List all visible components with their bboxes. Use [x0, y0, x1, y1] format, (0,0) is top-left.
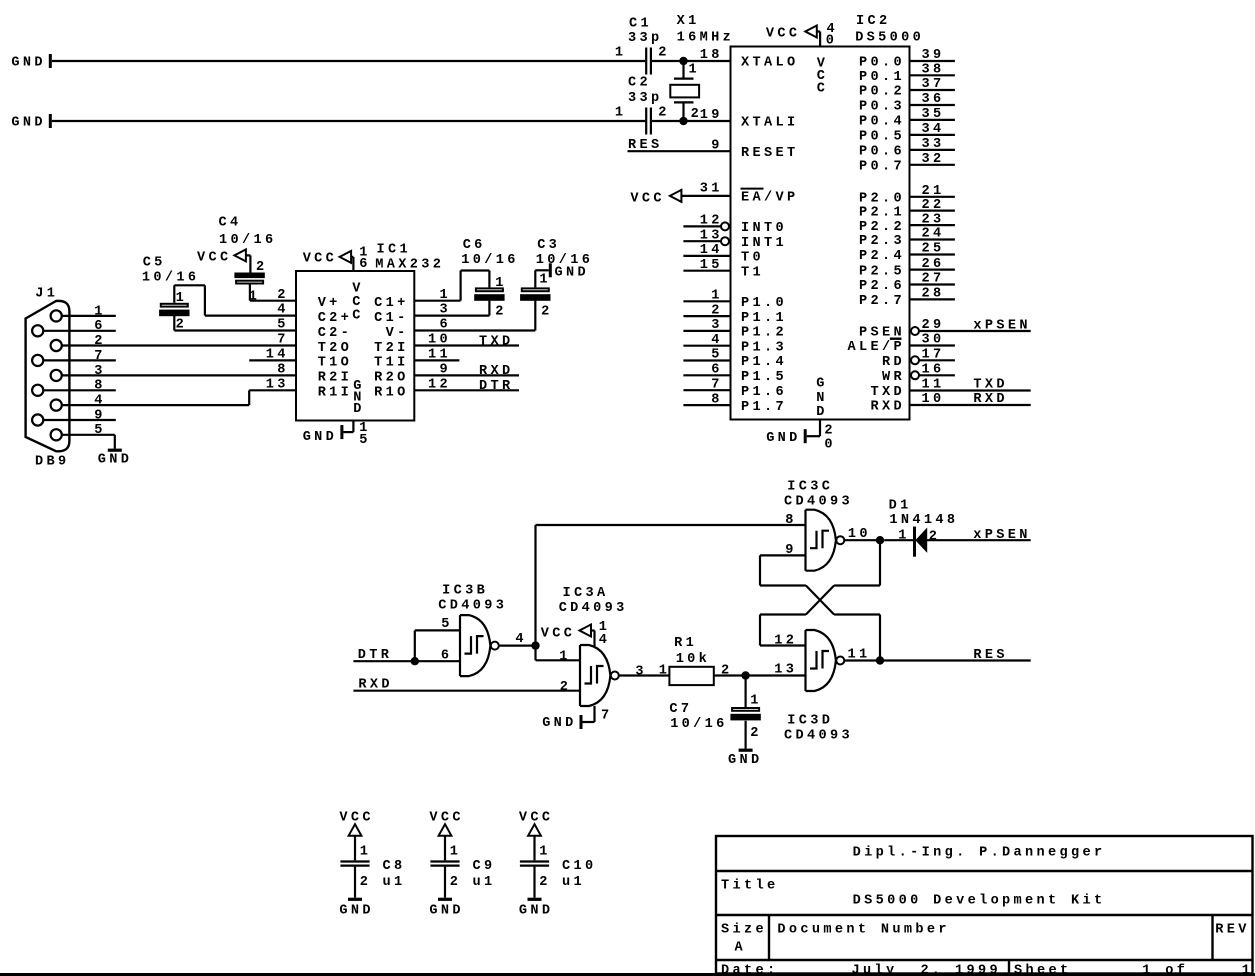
svg-text:A: A: [735, 941, 747, 956]
crystal X1 16MHz: [670, 14, 734, 122]
wire: [52, 60, 645, 62]
ground GND at IC2 pin 20: [766, 421, 836, 453]
ground GND at C8: [339, 898, 374, 919]
IC2 pin 13: [683, 228, 729, 245]
svg-text:C2+: C2+: [318, 311, 353, 326]
wire DTR: [353, 660, 459, 662]
J1 pin 6 wire: [43, 319, 116, 334]
IC2 pin 16 WR: [911, 363, 955, 380]
svg-text:Date:: Date:: [721, 964, 779, 976]
IC1 MAX232 body: [296, 242, 444, 420]
svg-text:VCC: VCC: [197, 251, 232, 266]
power VCC at EA/VP pin 31: [630, 181, 722, 206]
IC2 pin 29 PSEN: [911, 318, 1031, 335]
wire RES: [880, 659, 1031, 661]
svg-text:P2.2: P2.2: [859, 220, 905, 235]
svg-text:T2I: T2I: [374, 341, 409, 356]
IC2 pin 28: [911, 287, 955, 302]
IC2 pin 30: [911, 333, 955, 348]
svg-text:7: 7: [601, 708, 613, 723]
svg-text:19: 19: [700, 108, 723, 123]
wire V- to C3: [415, 329, 536, 331]
svg-text:T1O: T1O: [318, 356, 353, 371]
svg-text:C5: C5: [143, 255, 166, 270]
svg-text:GND: GND: [542, 716, 577, 731]
IC2 pin 24: [911, 227, 955, 242]
junction: [411, 657, 419, 665]
wire: [250, 300, 296, 302]
svg-text:0: 0: [824, 437, 836, 452]
svg-text:C3: C3: [537, 238, 560, 253]
gate IC3D CD4093: [774, 630, 870, 744]
svg-text:IC1: IC1: [377, 242, 412, 257]
svg-text:P1.1: P1.1: [741, 311, 787, 326]
IC2 pin 5: [683, 348, 729, 363]
IC2 pin 1: [683, 289, 729, 304]
svg-text:RES: RES: [973, 648, 1008, 663]
svg-text:Document Number: Document Number: [777, 923, 949, 938]
ground GND at C1: [11, 54, 51, 71]
svg-text:Title: Title: [721, 879, 779, 894]
wire: [681, 195, 729, 197]
svg-text:P2.6: P2.6: [859, 279, 905, 294]
svg-text:P2.3: P2.3: [859, 234, 905, 249]
cross-coupling wires: [760, 586, 880, 661]
svg-text:VCC: VCC: [541, 627, 576, 642]
svg-text:1: 1: [615, 46, 627, 61]
junction node XTALO: [679, 57, 687, 65]
svg-text:VCC: VCC: [303, 252, 338, 267]
svg-text:DS5000 Development Kit: DS5000 Development Kit: [853, 894, 1106, 909]
gate IC3C CD4093: [784, 479, 871, 570]
svg-text:R1I: R1I: [318, 386, 353, 401]
svg-text:5: 5: [94, 423, 106, 438]
IC2 pin 27: [911, 272, 955, 287]
ground GND at C2: [11, 114, 51, 131]
svg-text:WR: WR: [882, 370, 905, 385]
svg-text:1: 1: [94, 304, 106, 319]
svg-text:2: 2: [360, 875, 372, 890]
wire: [652, 60, 730, 62]
J1 pin 3 wire: [62, 364, 296, 379]
resistor R1 10k: [659, 636, 733, 685]
svg-text:P2.4: P2.4: [859, 249, 905, 264]
wire: [879, 540, 881, 585]
IC2 pin 3: [683, 318, 729, 333]
svg-text:TXD: TXD: [479, 334, 514, 349]
svg-text:2: 2: [541, 304, 553, 319]
power VCC at C8: [339, 810, 374, 835]
svg-text:IC3D: IC3D: [787, 714, 833, 729]
wire pin 9: [760, 554, 806, 556]
svg-text:IC2: IC2: [856, 14, 891, 29]
junction: [531, 641, 539, 649]
svg-text:4: 4: [277, 303, 289, 318]
svg-text:C2: C2: [628, 76, 651, 91]
svg-text:3: 3: [635, 664, 647, 679]
svg-text:DB9: DB9: [35, 455, 70, 470]
svg-text:VCC: VCC: [766, 27, 801, 42]
svg-text:GND: GND: [728, 753, 763, 768]
svg-text:P1.2: P1.2: [741, 326, 787, 341]
svg-text:INT1: INT1: [741, 236, 787, 251]
svg-text:GND: GND: [519, 904, 554, 919]
capacitor C7 10/16: [669, 676, 761, 749]
svg-text:3: 3: [94, 364, 106, 379]
svg-text:GND: GND: [766, 431, 801, 446]
svg-text:2: 2: [495, 304, 507, 319]
svg-text:P2.5: P2.5: [859, 264, 905, 279]
svg-text:1: 1: [659, 664, 671, 679]
power VCC at IC3A pin 14: [541, 620, 611, 648]
wire xPSEN: [927, 539, 1031, 541]
IC2 pin 26: [911, 257, 955, 272]
capacitor C10 u1: [520, 836, 597, 898]
svg-text:9: 9: [94, 408, 106, 423]
svg-text:C1: C1: [629, 16, 652, 31]
IC2 pin 15: [683, 258, 729, 273]
svg-text:P2.7: P2.7: [859, 294, 905, 309]
svg-text:C1+: C1+: [374, 296, 409, 311]
svg-text:1: 1: [689, 63, 701, 78]
wire top rail to IC3C pin 8: [536, 524, 806, 526]
svg-text:C10: C10: [562, 859, 597, 874]
svg-text:P0.0: P0.0: [859, 56, 905, 71]
IC2 pin 21: [911, 184, 955, 199]
svg-text:P1.3: P1.3: [741, 340, 787, 355]
svg-text:CD4093: CD4093: [784, 494, 853, 509]
svg-text:RD: RD: [882, 355, 905, 370]
svg-text:C6: C6: [463, 238, 486, 253]
svg-text:10/16: 10/16: [670, 717, 728, 732]
wire: [714, 674, 806, 676]
connector J1 DB9: [26, 287, 70, 470]
svg-text:N: N: [816, 391, 828, 406]
capacitor C5 10/16: [142, 255, 200, 332]
wire T1I stub: [415, 359, 460, 361]
svg-text:IC3A: IC3A: [563, 586, 609, 601]
title block frame: [716, 836, 1253, 974]
ground GND at IC3A pin 7: [542, 706, 612, 731]
svg-text:33p: 33p: [628, 31, 663, 46]
IC2 pin 7: [683, 377, 729, 392]
svg-text:7: 7: [94, 349, 106, 364]
svg-text:8: 8: [94, 379, 106, 394]
svg-text:2: 2: [560, 680, 572, 695]
svg-text:4: 4: [599, 633, 611, 648]
svg-text:P0.3: P0.3: [859, 100, 905, 115]
svg-text:13: 13: [774, 663, 797, 678]
svg-text:XTALO: XTALO: [741, 56, 799, 71]
svg-text:5: 5: [359, 433, 371, 448]
svg-text:9: 9: [711, 138, 723, 153]
svg-text:P2.0: P2.0: [859, 192, 905, 207]
ground GND at C7: [728, 749, 763, 768]
svg-text:P1.6: P1.6: [741, 385, 787, 400]
svg-text:INT0: INT0: [741, 221, 787, 236]
ground at J1 pin 5: [98, 449, 133, 468]
svg-text:RESET: RESET: [741, 146, 799, 161]
svg-text:1: 1: [1242, 964, 1254, 976]
svg-text:R2I: R2I: [318, 371, 353, 386]
wire DTR from IC1: [415, 389, 520, 391]
svg-text:T0: T0: [741, 251, 764, 266]
wire: [652, 120, 730, 122]
IC2 right pin names: [848, 56, 906, 415]
power VCC at C9: [429, 810, 464, 835]
IC2 pin 12: [683, 214, 729, 231]
svg-text:R1: R1: [674, 636, 697, 651]
svg-text:xPSEN: xPSEN: [973, 528, 1031, 543]
svg-text:u1: u1: [383, 875, 406, 890]
svg-text:5: 5: [277, 318, 289, 333]
J1 pin 1 wire: [62, 304, 116, 319]
IC2 pin 38: [911, 63, 955, 78]
svg-text:GND: GND: [555, 266, 590, 281]
svg-text:P0.5: P0.5: [859, 130, 905, 145]
svg-text:P0.1: P0.1: [859, 70, 905, 85]
wire: [249, 389, 295, 391]
svg-text:C9: C9: [473, 859, 496, 874]
IC2 pin 39: [911, 48, 955, 63]
junction: [876, 656, 884, 664]
svg-text:VCC: VCC: [630, 191, 665, 206]
svg-text:C: C: [817, 82, 829, 97]
ground GND at C3: [549, 263, 589, 280]
IC2 pin 36: [911, 92, 955, 107]
svg-text:GND: GND: [429, 904, 464, 919]
capacitor C6 10/16: [461, 238, 519, 319]
svg-text:ALE/P: ALE/P: [848, 340, 906, 355]
IC2 pin 14: [683, 243, 729, 258]
IC2 pin 34: [911, 122, 955, 137]
svg-text:18: 18: [700, 48, 723, 63]
IC2 left pin names: [741, 56, 829, 420]
svg-text:C: C: [352, 308, 364, 323]
svg-text:Sheet: Sheet: [1014, 964, 1072, 976]
svg-text:10/16: 10/16: [142, 271, 200, 286]
svg-text:1: 1: [249, 290, 261, 305]
svg-text:RXD: RXD: [871, 400, 906, 415]
IC2 pin 6: [683, 363, 729, 378]
svg-text:8: 8: [785, 513, 797, 528]
J1 pin 5 wire: [62, 423, 115, 448]
svg-text:C4: C4: [219, 216, 242, 231]
wire vertical to top rail and IC3A pin1: [534, 525, 536, 660]
capacitor C8 u1: [340, 836, 405, 898]
svg-text:1: 1: [360, 845, 372, 860]
wire RXD from IC1: [415, 374, 520, 376]
ground GND at C9: [429, 898, 464, 919]
svg-text:GND: GND: [339, 904, 374, 919]
svg-text:P1.0: P1.0: [741, 296, 787, 311]
svg-text:5: 5: [441, 617, 453, 632]
svg-text:u1: u1: [473, 875, 496, 890]
svg-text:6: 6: [441, 648, 453, 663]
svg-text:REV: REV: [1215, 923, 1250, 938]
IC2 pin 10 RXD: [911, 392, 1031, 407]
IC2 pin 11 TXD: [911, 378, 1031, 393]
svg-text:10/16: 10/16: [461, 253, 519, 268]
svg-text:10/16: 10/16: [219, 233, 277, 248]
svg-text:EA/VP: EA/VP: [741, 191, 799, 206]
svg-text:D1: D1: [889, 499, 912, 514]
svg-text:G: G: [816, 377, 828, 392]
svg-text:T2O: T2O: [318, 341, 353, 356]
svg-text:7: 7: [277, 333, 289, 348]
sheet bottom border: [0, 973, 1255, 976]
wire pin 12: [760, 644, 806, 646]
wire: [844, 539, 876, 541]
wire TXD from IC1: [415, 344, 520, 346]
IC2 pin 4: [683, 333, 729, 348]
svg-text:1: 1: [559, 649, 571, 664]
svg-text:TXD: TXD: [871, 385, 906, 400]
svg-text:33p: 33p: [628, 91, 663, 106]
svg-text:IC3B: IC3B: [442, 584, 488, 599]
svg-text:GND: GND: [98, 452, 133, 467]
svg-text:Size: Size: [721, 923, 767, 938]
svg-text:VCC: VCC: [519, 810, 554, 825]
gate IC3A CD4093: [559, 586, 647, 706]
svg-text:P0.4: P0.4: [859, 115, 905, 130]
svg-text:XTALI: XTALI: [741, 116, 799, 131]
J1 pin 8 wire: [43, 379, 116, 394]
svg-text:Dipl.-Ing. P.Dannegger: Dipl.-Ing. P.Dannegger: [853, 846, 1106, 861]
svg-text:P1.5: P1.5: [741, 370, 787, 385]
svg-text:1: 1: [615, 106, 627, 121]
svg-text:CD4093: CD4093: [559, 601, 628, 616]
wire: [628, 150, 730, 152]
svg-text:1: 1: [539, 845, 551, 860]
svg-text:J1: J1: [35, 287, 58, 302]
IC2 pin 23: [911, 212, 955, 227]
wire RXD: [353, 690, 579, 692]
svg-text:RXD: RXD: [973, 392, 1008, 407]
capacitor C2 33p: [615, 76, 670, 135]
svg-text:2: 2: [658, 46, 670, 61]
svg-text:RXD: RXD: [479, 364, 514, 379]
IC2 pin 8: [683, 392, 729, 407]
capacitor C4 10/16: [197, 216, 277, 305]
junction: [741, 671, 749, 679]
IC2 pin 32: [911, 152, 955, 167]
svg-text:xPSEN: xPSEN: [973, 318, 1031, 333]
svg-text:T1I: T1I: [374, 356, 409, 371]
svg-text:P0.6: P0.6: [859, 145, 905, 160]
svg-text:4: 4: [94, 394, 106, 409]
svg-text:1: 1: [750, 693, 762, 708]
wire: [619, 674, 670, 676]
svg-text:6: 6: [359, 257, 371, 272]
svg-text:2: 2: [750, 726, 762, 741]
diode D1 1N4148: [884, 499, 958, 557]
wire: [52, 120, 645, 122]
junction node XTALI: [679, 117, 687, 125]
svg-text:C7: C7: [669, 702, 692, 717]
IC2 pin 22: [911, 198, 955, 213]
svg-text:1: 1: [495, 276, 507, 291]
svg-text:DTR: DTR: [479, 379, 514, 394]
svg-text:X1: X1: [677, 14, 700, 29]
svg-text:D: D: [353, 402, 365, 417]
capacitor C1 33p: [615, 16, 670, 74]
IC2 pin 33: [911, 137, 955, 152]
svg-text:2: 2: [539, 875, 551, 890]
IC2 pin 35: [911, 107, 955, 122]
svg-text:1: 1: [898, 529, 910, 544]
svg-text:1 of: 1 of: [1142, 964, 1188, 976]
svg-text:VCC: VCC: [339, 810, 374, 825]
wire: [414, 630, 416, 661]
svg-text:P1.7: P1.7: [741, 400, 787, 415]
svg-text:6: 6: [94, 319, 106, 334]
svg-text:T1: T1: [741, 265, 764, 280]
svg-text:P0.7: P0.7: [859, 160, 905, 175]
IC2 DS5000 microcontroller body: [731, 14, 925, 420]
svg-text:31: 31: [700, 181, 723, 196]
svg-text:TXD: TXD: [973, 378, 1008, 393]
wire pin1 C1+: [415, 300, 461, 302]
svg-text:C2-: C2-: [318, 326, 353, 341]
junction: [876, 536, 884, 544]
svg-text:CD4093: CD4093: [438, 598, 507, 613]
svg-text:u1: u1: [562, 875, 585, 890]
J1 pin 2 wire: [62, 334, 296, 349]
svg-text:1: 1: [176, 291, 188, 306]
svg-text:GND: GND: [303, 430, 338, 445]
svg-text:2: 2: [929, 529, 941, 544]
svg-text:C8: C8: [383, 859, 406, 874]
IC1 pin names: [318, 282, 409, 418]
svg-text:12: 12: [774, 633, 797, 648]
wire: [844, 659, 876, 661]
svg-text:P2.1: P2.1: [859, 205, 905, 220]
wire: [174, 329, 295, 331]
svg-text:2: 2: [94, 334, 106, 349]
power VCC at IC1 pin 16: [303, 246, 371, 273]
svg-text:July 2, 1999: July 2, 1999: [852, 964, 1001, 976]
power VCC at IC2 pin 40: [766, 22, 838, 49]
svg-text:2: 2: [658, 106, 670, 121]
J1 pin 4 wire: [62, 390, 249, 408]
title block texts: [721, 846, 1253, 976]
svg-text:C1-: C1-: [374, 311, 409, 326]
svg-text:GND: GND: [11, 116, 46, 131]
svg-text:R2O: R2O: [374, 371, 409, 386]
svg-text:8: 8: [277, 363, 289, 378]
capacitor C3 10/16: [520, 238, 593, 319]
svg-text:D: D: [816, 405, 828, 420]
svg-text:V+: V+: [318, 296, 341, 311]
ground GND at C10: [519, 898, 554, 919]
svg-text:P0.2: P0.2: [859, 85, 905, 100]
wire: [249, 359, 295, 361]
IC2 pin 17 RD: [911, 348, 955, 365]
J1 pin 7 wire: [43, 349, 116, 364]
gate IC3B CD4093: [438, 584, 527, 677]
svg-text:2: 2: [277, 288, 289, 303]
capacitor C9 u1: [430, 836, 495, 898]
wire: [499, 644, 536, 646]
svg-text:IC3C: IC3C: [787, 479, 833, 494]
svg-text:DS5000: DS5000: [855, 31, 924, 46]
svg-text:R1O: R1O: [374, 386, 409, 401]
svg-text:10k: 10k: [676, 652, 711, 667]
IC2 pin 25: [911, 242, 955, 257]
IC2 pin 37: [911, 77, 955, 92]
wire: [174, 284, 205, 286]
